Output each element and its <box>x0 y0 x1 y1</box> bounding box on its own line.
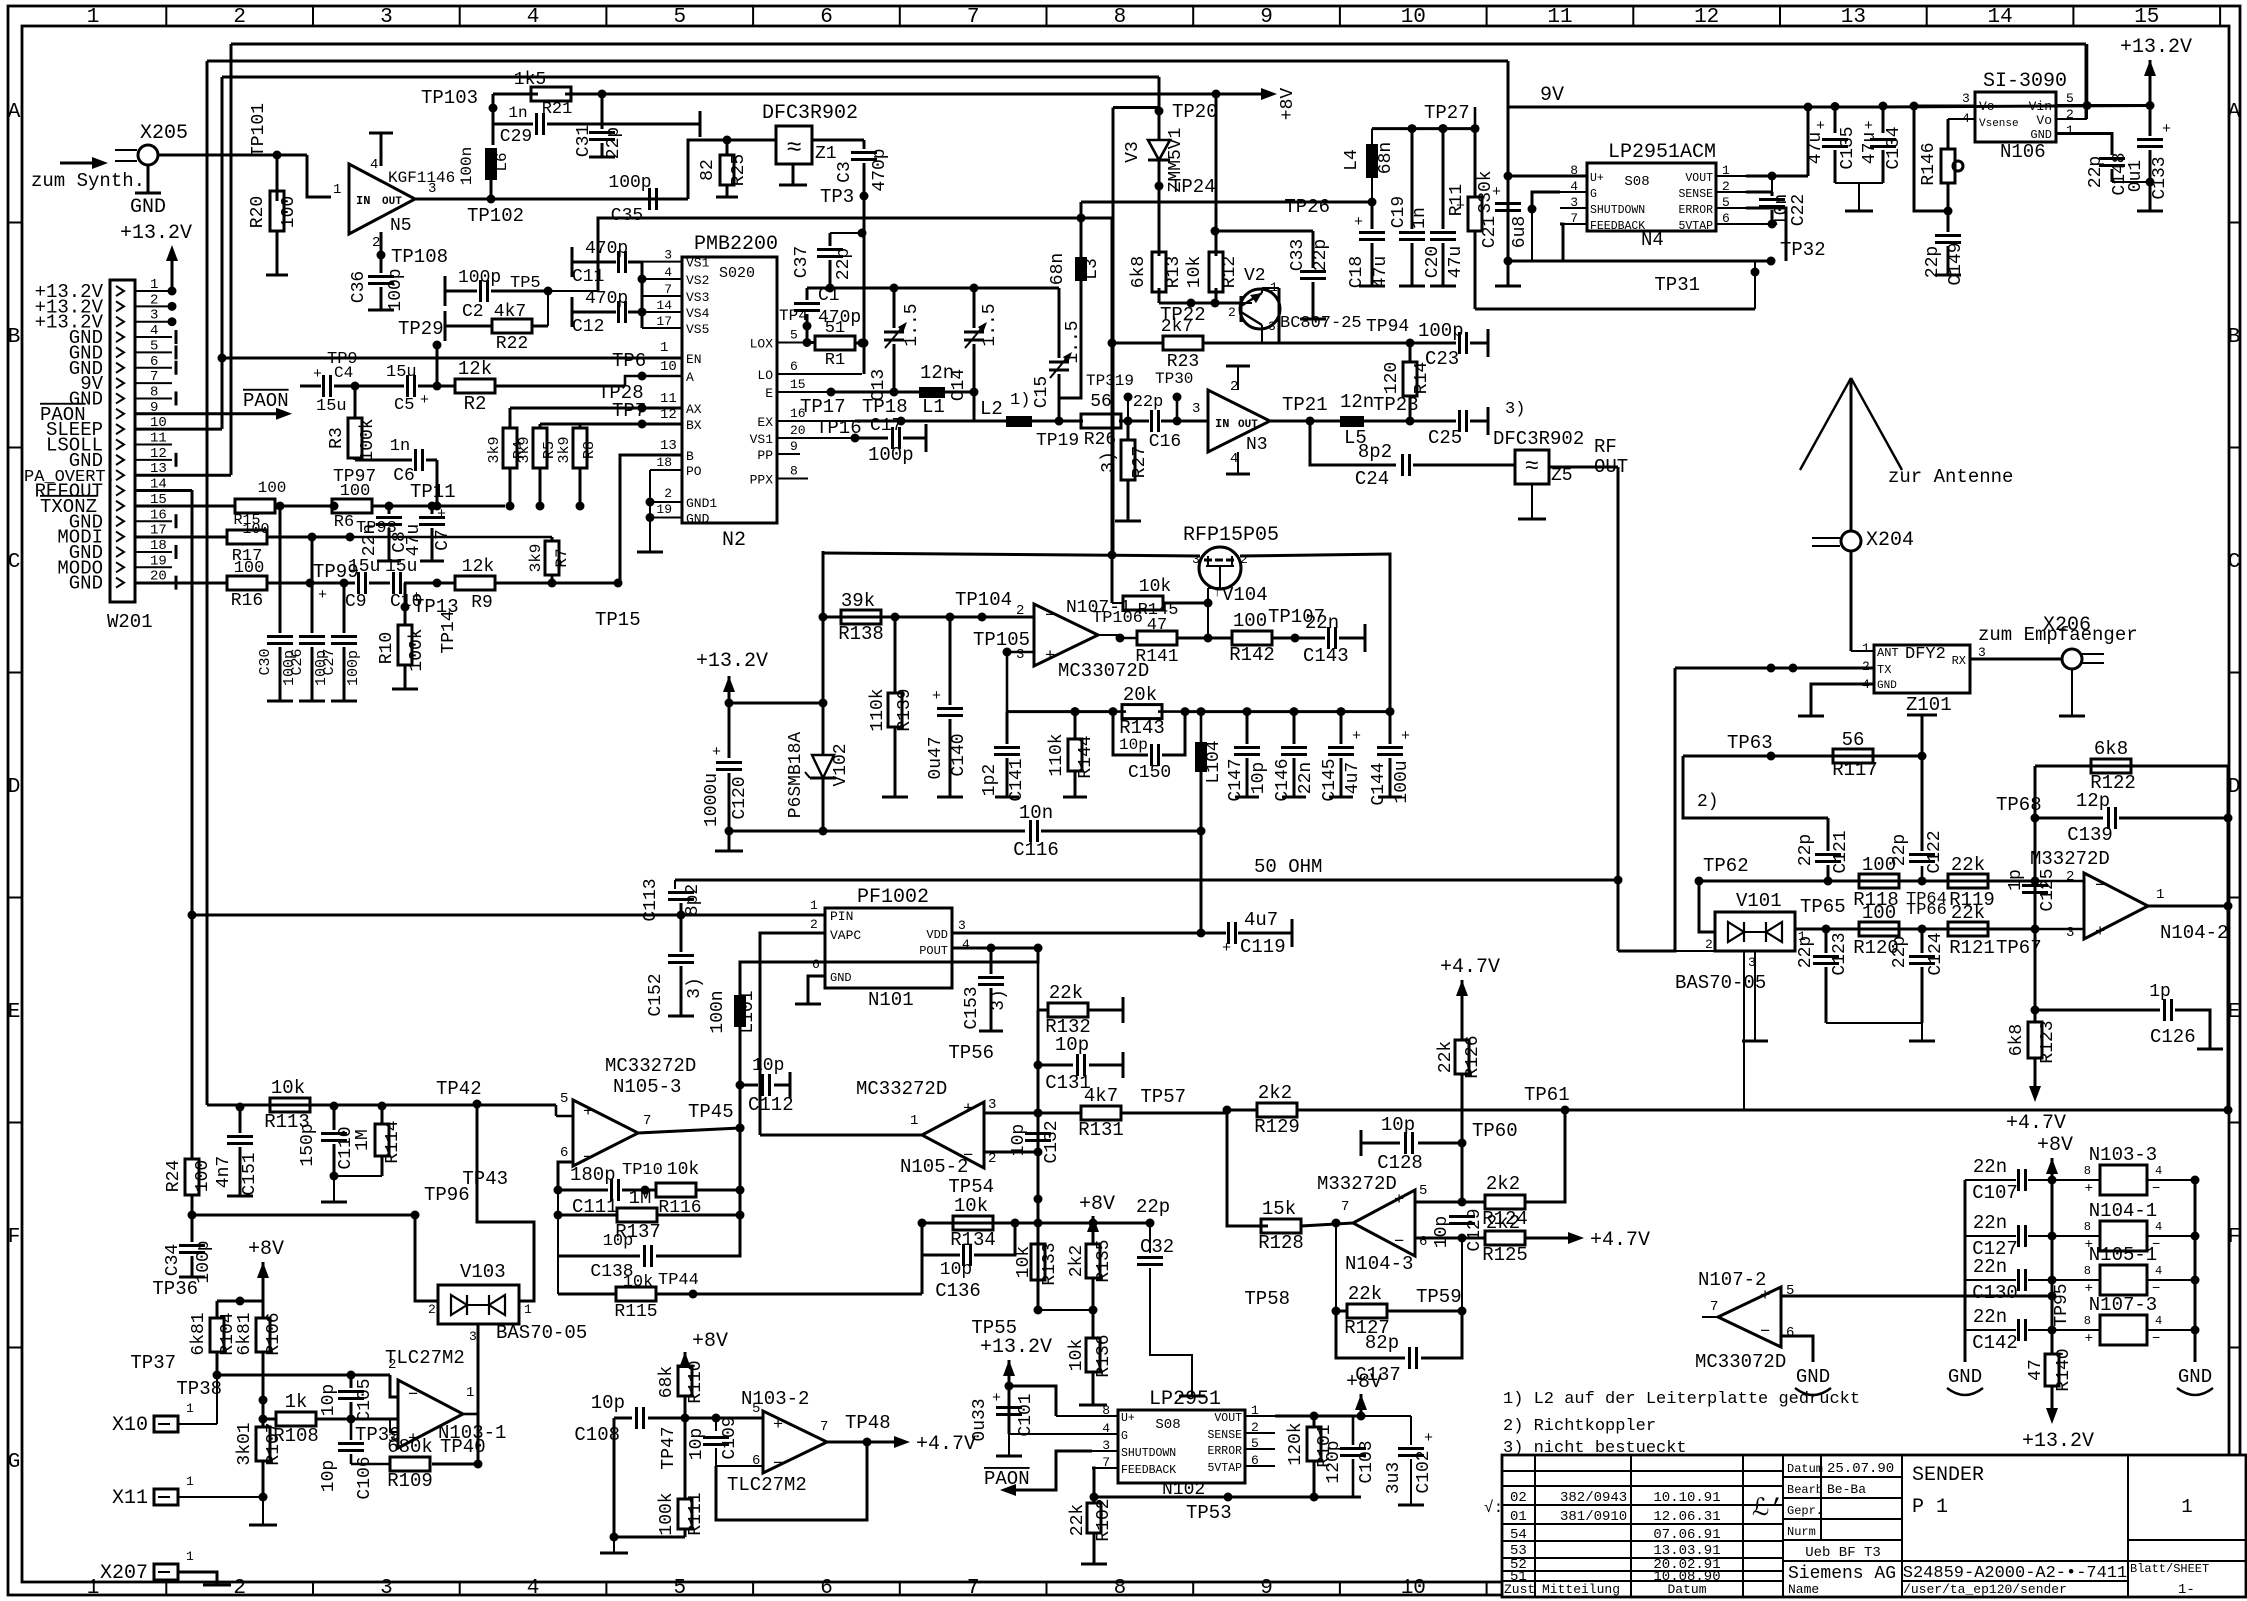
capacitor C116 <box>729 830 1025 833</box>
svg-text:C152: C152 <box>646 973 666 1016</box>
resistor R125 (2k2) <box>1462 1237 1485 1240</box>
svg-text:4k7: 4k7 <box>1084 1085 1118 1107</box>
svg-text:KGF1146: KGF1146 <box>388 169 455 187</box>
svg-text:8: 8 <box>2084 1220 2091 1234</box>
wire TP53 row <box>1094 1496 1361 1499</box>
svg-text:IN: IN <box>1215 417 1229 431</box>
svg-text:22n: 22n <box>1973 1306 2007 1328</box>
wire N103-2 out <box>827 1441 895 1444</box>
svg-text:Ueb BF T3: Ueb BF T3 <box>1805 1545 1881 1561</box>
svg-text:GND: GND <box>1796 1366 1830 1388</box>
svg-text:TP17: TP17 <box>800 396 846 418</box>
svg-text:10p: 10p <box>940 1260 972 1280</box>
svg-text:L4: L4 <box>1342 149 1362 171</box>
svg-text:≈: ≈ <box>786 133 802 163</box>
svg-text:C5: C5 <box>394 396 414 415</box>
svg-text:G: G <box>1121 1430 1128 1443</box>
12 <box>1813 955 1839 958</box>
op-amp N103-2 <box>763 1411 827 1473</box>
svg-text:C123: C123 <box>1830 932 1850 975</box>
svg-text:C105: C105 <box>355 1378 375 1421</box>
svg-text:3): 3) <box>685 977 705 999</box>
wire to TP58 <box>1335 1223 1337 1311</box>
inductor L5 <box>1340 416 1364 427</box>
wire N107-2 plus input <box>1781 1295 2052 1298</box>
resistor R144 (110k) <box>1071 707 1080 716</box>
resistor R146 <box>1948 118 1975 120</box>
svg-text:56: 56 <box>1842 729 1865 751</box>
connector W201 <box>110 280 135 602</box>
svg-text:RFP15P05: RFP15P05 <box>1183 524 1279 547</box>
wire <box>1158 186 1161 256</box>
svg-text:PP: PP <box>757 448 773 463</box>
op-amp N107-1 <box>1034 604 1098 666</box>
svg-text:R10: R10 <box>377 632 397 664</box>
svg-text:C15: C15 <box>1032 376 1052 408</box>
resistor R25 <box>726 140 729 156</box>
wire GND pin1 to C148 <box>2056 134 2112 156</box>
wire R134 row <box>922 1222 1093 1225</box>
wire TP29 stub <box>436 345 439 386</box>
wire X205 to N5 <box>158 154 307 157</box>
capacitor C120 (1000u) <box>728 703 731 758</box>
zum Synth arrow line <box>60 162 100 165</box>
node TP10 <box>641 1186 650 1195</box>
svg-text:VS1: VS1 <box>750 432 774 447</box>
svg-text:9: 9 <box>1260 1577 1273 1600</box>
svg-text:C153: C153 <box>962 986 982 1029</box>
svg-text:22k: 22k <box>1951 854 1985 876</box>
svg-text:TP94: TP94 <box>1366 317 1409 337</box>
svg-text:11: 11 <box>660 391 677 407</box>
node TP55 <box>1034 1306 1043 1315</box>
11 <box>1399 231 1425 234</box>
svg-text:EN: EN <box>686 352 702 367</box>
svg-text:1: 1 <box>150 277 158 293</box>
svg-text:TP36: TP36 <box>152 1278 198 1300</box>
resistor R104 (6k81) <box>216 1301 219 1317</box>
svg-text:10p: 10p <box>1055 1034 1089 1056</box>
svg-text:C122: C122 <box>1925 830 1945 873</box>
svg-text:PMB2200: PMB2200 <box>694 233 778 256</box>
svg-text:22n: 22n <box>1973 1212 2007 1234</box>
svg-text:R131: R131 <box>1078 1119 1124 1141</box>
svg-text:R110: R110 <box>686 1360 706 1403</box>
svg-text:+8V: +8V <box>1079 1193 1115 1216</box>
svg-text:3: 3 <box>1192 552 1200 567</box>
capacitor C147 <box>1243 707 1252 716</box>
resistor R115 <box>557 1256 559 1294</box>
node TP54 <box>1034 1195 1043 1204</box>
svg-text:7: 7 <box>150 369 158 385</box>
op-amp N105-3 <box>573 1100 638 1166</box>
svg-text:6k8: 6k8 <box>2094 738 2128 760</box>
capacitor C12 <box>571 297 574 327</box>
svg-text:01: 01 <box>1510 1509 1527 1525</box>
svg-text:1: 1 <box>186 1474 194 1489</box>
capacitor C128 <box>1360 1130 1363 1156</box>
node TP104 <box>978 613 987 622</box>
svg-text:12k: 12k <box>458 358 492 380</box>
svg-text:TP44: TP44 <box>658 1271 699 1290</box>
svg-text:RX: RX <box>1952 654 1966 668</box>
feedback R122 <box>2034 766 2037 881</box>
svg-text:2: 2 <box>1705 937 1713 952</box>
wire RF OUT vertical <box>1617 467 1620 951</box>
wire down to V104 drain <box>1111 343 1114 556</box>
resistor R132 (22k) <box>1038 1009 1048 1012</box>
svg-text:22k: 22k <box>1348 1283 1382 1305</box>
svg-text:4: 4 <box>962 937 970 952</box>
svg-text:8: 8 <box>2084 1314 2091 1328</box>
svg-text:R142: R142 <box>1229 644 1275 666</box>
svg-text:R134: R134 <box>950 1229 996 1251</box>
svg-text:22n: 22n <box>1296 762 1316 794</box>
svg-text:R126: R126 <box>1463 1035 1483 1078</box>
svg-text:F: F <box>2228 1226 2241 1249</box>
wire N107-2 out stub <box>1702 1316 1718 1318</box>
svg-text:C151: C151 <box>240 1152 260 1195</box>
node TP39 <box>347 1415 356 1424</box>
svg-text:P 1: P 1 <box>1912 1496 1948 1519</box>
node TP14 <box>433 579 442 588</box>
svg-text:1k5: 1k5 <box>514 70 546 90</box>
svg-text:LOX: LOX <box>750 337 774 352</box>
svg-text:R7: R7 <box>553 548 571 567</box>
svg-text:12p: 12p <box>2076 790 2110 812</box>
inductor L2 <box>1006 416 1032 427</box>
resistor R17 <box>135 536 227 539</box>
svg-text:2: 2 <box>664 486 672 501</box>
wire TX line <box>1675 667 1874 670</box>
svg-text:Name: Name <box>1788 1582 1819 1597</box>
svg-text:TP57: TP57 <box>1140 1086 1186 1108</box>
capacitor C110 (150p) <box>333 1106 336 1130</box>
svg-text:L104: L104 <box>1204 740 1224 783</box>
capacitor C25 <box>1410 420 1456 423</box>
node TP40 <box>474 1460 483 1469</box>
+13.2V arrow down <box>2046 1408 2058 1424</box>
resistor R117 <box>1833 749 1873 763</box>
resistor R23 <box>1112 342 1163 345</box>
svg-text:C143: C143 <box>1303 645 1349 667</box>
svg-text:TP20: TP20 <box>1172 101 1218 123</box>
svg-text:10k: 10k <box>1014 1246 1034 1278</box>
resistor R102 (22k) <box>1093 1497 1096 1503</box>
capacitor C32 <box>1093 1222 1150 1225</box>
svg-text:G: G <box>1590 188 1597 201</box>
resistor R121 <box>1948 922 1988 936</box>
svg-text:0u1: 0u1 <box>2126 160 2146 192</box>
svg-text:DFC3R902: DFC3R902 <box>1493 428 1584 450</box>
node TP319 <box>1124 393 1133 402</box>
svg-text:SENSE: SENSE <box>1678 188 1713 201</box>
svg-text:C: C <box>2228 551 2241 574</box>
svg-text:680k: 680k <box>387 1436 433 1458</box>
svg-text:5: 5 <box>673 6 686 29</box>
svg-text:N2: N2 <box>722 529 746 552</box>
svg-text:1p: 1p <box>2006 869 2026 891</box>
node TP3 <box>860 192 869 201</box>
capacitor C119 (4u7) <box>1227 922 1230 944</box>
+4.7V arrow down <box>2029 1086 2041 1102</box>
node TP64 <box>1918 877 1927 886</box>
12 <box>2022 884 2048 887</box>
trimmer C13 <box>893 288 896 328</box>
svg-text:10: 10 <box>660 359 677 375</box>
node TP11 <box>433 502 442 511</box>
svg-text:100p: 100p <box>868 444 914 466</box>
node TP21 <box>1306 417 1315 426</box>
wire Vo pin3 <box>1914 105 1975 107</box>
node TP19 <box>1055 417 1064 426</box>
svg-text:C124: C124 <box>1926 932 1946 975</box>
resistor R14 <box>1409 343 1412 363</box>
wire Z1 out <box>812 139 864 142</box>
PAON arrow <box>276 408 292 420</box>
resistor R118 <box>1859 874 1899 888</box>
svg-text:C2: C2 <box>462 302 484 322</box>
svg-text:C19: C19 <box>1389 196 1409 228</box>
svg-text:22p: 22p <box>1890 936 1910 968</box>
op-amp N104-2 <box>2084 873 2148 939</box>
svg-text:8: 8 <box>790 464 798 479</box>
capacitor C152 <box>680 915 683 952</box>
node TP36 <box>236 1297 245 1306</box>
11 <box>937 707 963 710</box>
11 <box>1870 138 1896 141</box>
node TP47 <box>681 1414 690 1423</box>
svg-text:R16: R16 <box>231 591 263 611</box>
svg-text:C27: C27 <box>321 648 338 675</box>
capacitor C153 <box>990 948 993 974</box>
ground N103-2 <box>600 1552 628 1555</box>
svg-text:A: A <box>686 370 694 385</box>
wire L101 down feedback bus <box>739 1027 742 1254</box>
svg-text:TP96: TP96 <box>424 1184 470 1206</box>
svg-text:8: 8 <box>2084 1264 2091 1278</box>
svg-text:4: 4 <box>370 157 378 173</box>
svg-text:V104: V104 <box>1222 584 1268 606</box>
svg-text:R141: R141 <box>1135 647 1178 667</box>
node TP17 <box>827 388 836 397</box>
wire long vertical to TP42 <box>206 61 209 1105</box>
svg-text:MC33072D: MC33072D <box>1695 1351 1786 1373</box>
svg-text:51: 51 <box>825 319 845 338</box>
svg-text:3): 3) <box>1505 400 1525 419</box>
node TP23 <box>1406 417 1415 426</box>
svg-text:Vsense: Vsense <box>1979 118 2019 130</box>
svg-text:TP65: TP65 <box>1800 896 1846 918</box>
left bus <box>1964 1180 1967 1362</box>
svg-text:10p: 10p <box>752 1056 784 1076</box>
svg-text:10n: 10n <box>1019 802 1053 824</box>
svg-text:E: E <box>2228 1001 2241 1024</box>
wire TP3 down to LO <box>863 196 866 374</box>
svg-text:C102: C102 <box>1414 1450 1434 1493</box>
12 <box>1025 1132 1051 1135</box>
wire V101 pin2 to TP62 <box>1699 881 1715 932</box>
ground Z101 <box>1798 715 1824 718</box>
svg-text:C9: C9 <box>345 592 367 612</box>
op-amp N107-2 (points left) <box>1718 1287 1781 1347</box>
12 <box>703 1436 729 1439</box>
svg-text:3: 3 <box>380 1577 393 1600</box>
svg-text:100p: 100p <box>608 173 651 193</box>
svg-text:C144: C144 <box>1369 762 1389 805</box>
capacitor C7 (47u) <box>428 502 437 511</box>
capacitor C20 (47u) <box>1439 124 1448 133</box>
svg-text:22n: 22n <box>360 524 380 556</box>
svg-text:ERROR: ERROR <box>1678 204 1713 217</box>
svg-text:N103-3: N103-3 <box>2089 1144 2157 1166</box>
svg-text:100p: 100p <box>386 268 406 311</box>
svg-text:470p: 470p <box>870 148 890 191</box>
svg-text:R24: R24 <box>164 1160 184 1192</box>
capacitor C139 <box>2035 817 2103 820</box>
wire R138 row <box>823 616 1034 619</box>
svg-text:C145: C145 <box>1320 758 1340 801</box>
capacitor C149 <box>1947 211 1950 232</box>
resistor R114 (1M) <box>381 1106 384 1124</box>
wire POUT row <box>952 947 1038 950</box>
12 <box>978 976 1004 979</box>
wire L3 bottom <box>1059 281 1081 398</box>
resistor R107 (3k01) <box>262 1400 265 1427</box>
svg-text:1n: 1n <box>1410 207 1430 229</box>
wire N101 GND <box>808 976 825 1003</box>
resistor R7 (3k9) <box>350 536 552 539</box>
capacitor C121 <box>1827 818 1830 851</box>
svg-text:15: 15 <box>2134 6 2159 29</box>
wire minus input <box>558 1162 573 1190</box>
svg-text:10k: 10k <box>1067 1339 1087 1371</box>
svg-text:TP11: TP11 <box>410 481 456 503</box>
capacitor C36 <box>380 255 383 273</box>
node TP108 <box>377 251 386 260</box>
svg-text:6u8: 6u8 <box>1510 216 1530 248</box>
svg-text:4: 4 <box>150 323 158 339</box>
svg-text:10p: 10p <box>1119 736 1148 754</box>
resistor R9 <box>437 582 455 585</box>
svg-text:X11: X11 <box>112 1487 148 1510</box>
svg-text:TP106: TP106 <box>1092 609 1143 628</box>
svg-text:C17: C17 <box>870 416 902 436</box>
svg-text:5: 5 <box>673 1577 686 1600</box>
svg-text:12: 12 <box>150 446 167 462</box>
svg-text:2: 2 <box>810 917 818 932</box>
svg-text:X204: X204 <box>1866 529 1914 552</box>
svg-text:4n7: 4n7 <box>214 1156 234 1188</box>
svg-text:381/0910: 381/0910 <box>1560 1509 1627 1525</box>
svg-text:5: 5 <box>1419 1183 1427 1199</box>
svg-text:68n: 68n <box>1376 142 1396 174</box>
svg-text:L3: L3 <box>1082 258 1102 280</box>
svg-text:1: 1 <box>333 182 341 198</box>
svg-text:Z5: Z5 <box>1551 466 1573 486</box>
svg-text:4u7: 4u7 <box>1343 762 1363 794</box>
svg-text:BAS70-05: BAS70-05 <box>496 1322 587 1344</box>
svg-text:8: 8 <box>150 384 158 400</box>
svg-text:0u47: 0u47 <box>926 736 946 779</box>
op-amp section box N104-1 <box>2100 1221 2147 1251</box>
wires N104-3 inputs <box>1415 1201 1462 1204</box>
node TP99 <box>306 579 315 588</box>
wire RX to X206 <box>1970 658 2062 661</box>
svg-text:330k: 330k <box>1476 170 1496 213</box>
wire TP96 to V103 <box>415 1215 438 1301</box>
svg-text:100: 100 <box>1862 902 1896 924</box>
wire TP62 row <box>1699 880 2035 883</box>
resistor R137 (1M) <box>557 1190 559 1215</box>
wire base line <box>1159 302 1241 305</box>
svg-text:TP61: TP61 <box>1524 1084 1570 1106</box>
svg-text:10p: 10p <box>603 1232 634 1251</box>
svg-text:X205: X205 <box>140 122 188 145</box>
wire vertical rail1 left <box>230 44 233 475</box>
svg-text:68k: 68k <box>657 1366 677 1398</box>
svg-text:GND: GND <box>830 971 852 985</box>
svg-text:+: + <box>1045 647 1055 666</box>
svg-text:22p: 22p <box>1136 1196 1170 1218</box>
svg-text:+13.2V: +13.2V <box>2120 36 2192 59</box>
11 <box>1281 746 1307 749</box>
wire L3 to TP26 supply <box>1081 201 1372 204</box>
svg-text:N106: N106 <box>2000 141 2046 163</box>
svg-text:N107-2: N107-2 <box>1698 1269 1766 1291</box>
svg-text:+: + <box>1354 214 1363 231</box>
svg-text:6: 6 <box>820 6 833 29</box>
resistor R106 (6k81) <box>262 1301 265 1317</box>
wire gnd rail under N4 <box>1508 260 1771 263</box>
svg-text:−: − <box>2152 1181 2160 1197</box>
svg-text:100: 100 <box>242 521 269 538</box>
svg-text:5: 5 <box>2066 91 2074 106</box>
svg-text:C142: C142 <box>1972 1332 2018 1354</box>
svg-text:9: 9 <box>790 439 798 454</box>
svg-text:22n: 22n <box>1973 1256 2007 1278</box>
svg-text:7: 7 <box>664 282 672 297</box>
svg-text:Bearb: Bearb <box>1787 1483 1823 1497</box>
svg-text:6: 6 <box>1419 1234 1427 1250</box>
wire VOUT/SENSE <box>1746 175 1808 178</box>
connector X206 <box>2062 649 2082 669</box>
capacitor C34 <box>191 1215 194 1242</box>
wire C137 loop <box>1336 1311 1405 1358</box>
12 <box>321 1132 347 1135</box>
svg-text:22n: 22n <box>1305 612 1339 634</box>
svg-text:TP68: TP68 <box>1996 794 2042 816</box>
resistor R12 <box>1215 231 1218 256</box>
svg-text:Vo: Vo <box>2036 113 2052 128</box>
svg-text:9V: 9V <box>1540 84 1564 107</box>
svg-text:OUT: OUT <box>382 196 402 208</box>
svg-text:15u: 15u <box>316 397 347 416</box>
svg-text:1: 1 <box>466 1385 474 1401</box>
capacitor C33 <box>1312 231 1315 268</box>
svg-text:+4.7V: +4.7V <box>2006 1112 2066 1135</box>
wire ERROR to TP32 <box>1746 208 1786 261</box>
svg-text:C12: C12 <box>572 317 604 337</box>
svg-text:MC33272D: MC33272D <box>605 1055 696 1077</box>
resistor R139 <box>894 617 897 693</box>
wire +8V rail <box>602 93 1261 96</box>
resistor R126 (22k) <box>1455 1040 1469 1074</box>
svg-text:R21: R21 <box>542 100 573 119</box>
svg-text:100p: 100p <box>345 650 362 686</box>
svg-text:TP19: TP19 <box>1036 431 1079 451</box>
wire FEEDBACK <box>1560 224 1563 261</box>
